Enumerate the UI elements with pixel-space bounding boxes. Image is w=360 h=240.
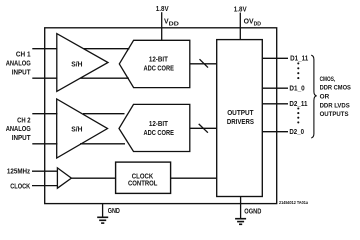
wire CH1 input - xyxy=(32,77,57,79)
ground OGND stub xyxy=(240,197,242,219)
wire D1_0 xyxy=(262,87,288,89)
bus slash ADC2 xyxy=(199,124,208,133)
svg-text:OUTPUTS: OUTPUTS xyxy=(320,111,349,118)
wire D2_11 xyxy=(262,103,288,105)
bus slash ADC1 xyxy=(200,59,209,67)
svg-text:1.8V: 1.8V xyxy=(156,6,169,13)
svg-text:OR: OR xyxy=(320,93,330,100)
clock buffer amp xyxy=(57,168,71,188)
wire CH1 input + xyxy=(32,48,57,50)
svg-text:CH 1: CH 1 xyxy=(16,51,31,58)
125MHz clock input label xyxy=(7,168,31,190)
svg-text:CLOCK: CLOCK xyxy=(132,174,153,181)
OVDD supply stub wire xyxy=(239,13,241,40)
wire D1_11 xyxy=(262,57,288,59)
wire CH2 input + xyxy=(32,113,57,115)
svg-text:DRIVERS: DRIVERS xyxy=(227,119,254,126)
svg-text:GND: GND xyxy=(108,208,120,215)
wire S/H2 output + xyxy=(83,113,125,115)
bus wire ADC1 to output drivers xyxy=(190,63,217,65)
output type label xyxy=(320,76,352,118)
wire S/H2 output - xyxy=(80,143,125,145)
ground GND stub xyxy=(102,204,104,217)
svg-text:CONTROL: CONTROL xyxy=(128,181,157,188)
VDD supply stub wire xyxy=(161,12,163,40)
svg-text:ANALOG: ANALOG xyxy=(6,126,31,133)
svg-text:S/H: S/H xyxy=(71,126,82,133)
svg-text:D2_11: D2_11 xyxy=(289,101,307,108)
svg-text:12-BIT: 12-BIT xyxy=(149,121,169,128)
svg-text:D1_0: D1_0 xyxy=(289,86,304,93)
clock control block xyxy=(116,162,171,193)
svg-text:CH 2: CH 2 xyxy=(17,117,31,124)
outer chip boundary xyxy=(45,28,277,204)
svg-text:1.8V: 1.8V xyxy=(234,6,247,13)
svg-text:DDR LVDS: DDR LVDS xyxy=(320,102,351,109)
ground OGND symbol xyxy=(235,219,246,225)
node dots D2 bus xyxy=(297,107,299,123)
svg-text:125MHz: 125MHz xyxy=(7,168,31,175)
wire CH2 input - xyxy=(32,143,57,145)
wire 125MHz input xyxy=(32,170,58,172)
ground GND symbol xyxy=(97,217,108,223)
wire D2_0 xyxy=(262,131,288,133)
wire CLOCK input xyxy=(32,185,58,187)
svg-text:OGND: OGND xyxy=(244,209,261,216)
svg-text:CMOS,: CMOS, xyxy=(320,76,336,83)
svg-text:CLOCK: CLOCK xyxy=(10,183,30,190)
ADC core 1 (12-bit) xyxy=(119,40,190,87)
svg-text:INPUT: INPUT xyxy=(12,70,32,77)
svg-text:D2_0: D2_0 xyxy=(289,129,304,136)
svg-text:ADC CORE: ADC CORE xyxy=(143,66,174,73)
wire clock buffer to clock control xyxy=(71,177,115,179)
svg-text:D1_11: D1_11 xyxy=(290,56,308,63)
svg-text:OUTPUT: OUTPUT xyxy=(227,110,254,117)
op-amp S/H1 xyxy=(57,34,108,92)
wire S/H1 output + xyxy=(84,48,130,50)
bus wire ADC2 to output drivers xyxy=(190,127,217,129)
ADC core 2 (12-bit) xyxy=(119,104,190,151)
op-amp S/H2 xyxy=(57,99,108,158)
CH 2 analog input label xyxy=(6,117,32,141)
wire S/H1 output - xyxy=(80,77,129,79)
node dots D1 bus xyxy=(297,62,299,79)
svg-text:21454012 TA01a: 21454012 TA01a xyxy=(279,200,308,205)
svg-text:DDR CMOS: DDR CMOS xyxy=(320,85,352,92)
svg-text:INPUT: INPUT xyxy=(12,135,32,142)
svg-text:ANALOG: ANALOG xyxy=(6,61,31,68)
svg-text:S/H: S/H xyxy=(71,62,82,69)
output drivers block xyxy=(217,40,263,197)
brace grouping outputs xyxy=(311,55,316,138)
wire clock control to output drivers xyxy=(171,177,217,179)
CH 1 analog input label xyxy=(6,51,32,76)
svg-text:ADC CORE: ADC CORE xyxy=(143,130,174,137)
svg-text:12-BIT: 12-BIT xyxy=(149,57,169,64)
